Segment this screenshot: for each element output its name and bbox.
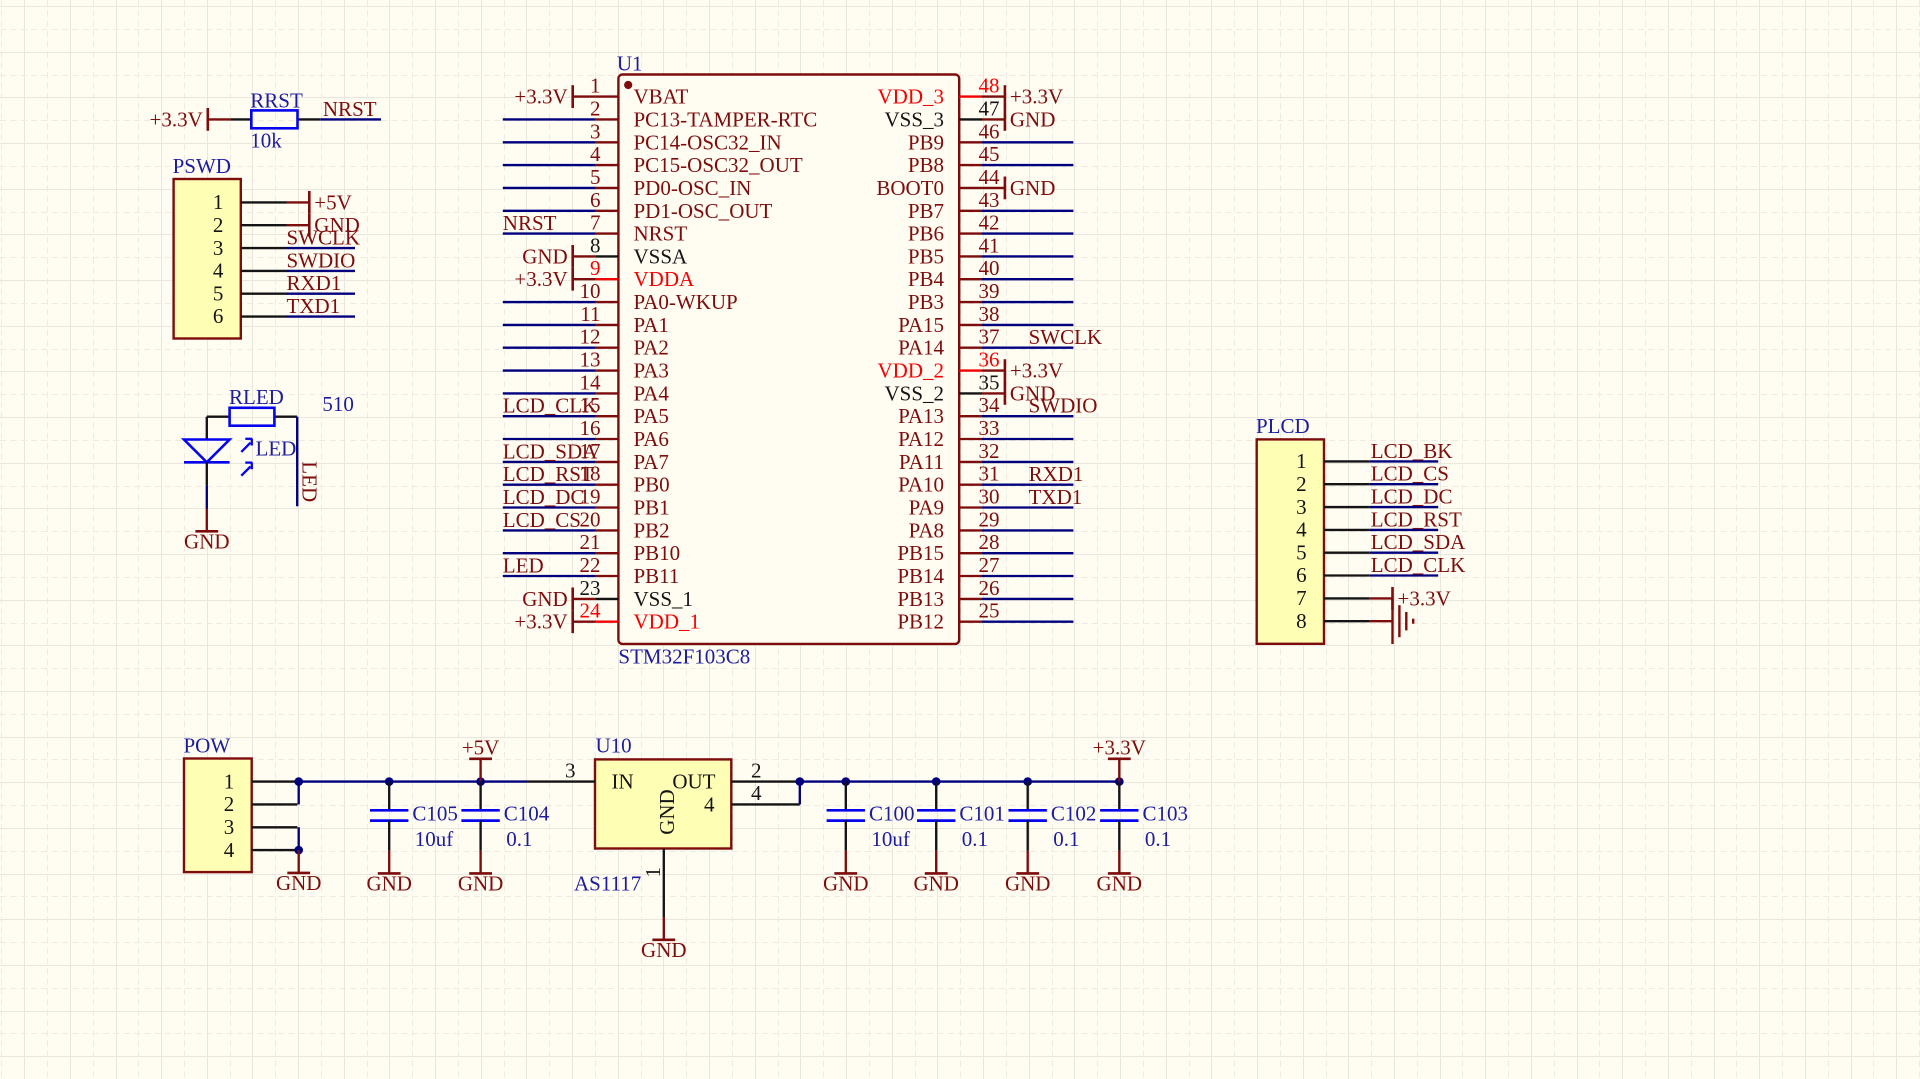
POW pin 4 (224, 838, 298, 862)
U10 pin 4 (704, 781, 800, 816)
svg-text:SWDIO: SWDIO (287, 248, 356, 272)
svg-text:PA2: PA2 (634, 336, 669, 360)
svg-text:+3.3V: +3.3V (1010, 359, 1063, 383)
svg-text:VSS_1: VSS_1 (634, 587, 694, 611)
svg-text:39: 39 (979, 279, 1000, 303)
U1 pin 12 (PA2) (580, 325, 669, 360)
svg-text:+3.3V: +3.3V (514, 85, 567, 109)
wire (799, 782, 801, 805)
junction (796, 777, 805, 786)
svg-text:28: 28 (979, 530, 1000, 554)
wire (503, 392, 596, 394)
capacitor C105 (370, 782, 408, 851)
svg-text:C105: C105 (412, 801, 458, 825)
svg-text:10uf: 10uf (871, 827, 910, 851)
svg-text:SWDIO: SWDIO (1029, 394, 1098, 418)
wire (503, 415, 596, 417)
svg-text:NRST: NRST (323, 97, 377, 121)
svg-text:PB9: PB9 (908, 130, 944, 154)
power +5V (PSWD pin 1) (287, 190, 352, 214)
svg-text:IN: IN (612, 770, 634, 794)
U1 pin 47 (VSS_3) (884, 96, 999, 131)
svg-text:PC13-TAMPER-RTC: PC13-TAMPER-RTC (634, 107, 818, 131)
svg-text:PB14: PB14 (897, 564, 944, 588)
svg-text:LED: LED (298, 461, 322, 502)
PLCD pin 5 (1296, 540, 1370, 564)
svg-text:BOOT0: BOOT0 (876, 176, 944, 200)
svg-text:29: 29 (979, 507, 1000, 531)
svg-text:STM32F103C8: STM32F103C8 (618, 644, 750, 668)
svg-text:38: 38 (979, 302, 1000, 326)
svg-text:C104: C104 (504, 801, 550, 825)
svg-text:35: 35 (979, 370, 1000, 394)
svg-text:LCD_BK: LCD_BK (1371, 439, 1453, 463)
svg-text:PA12: PA12 (898, 427, 944, 451)
U1 pin 27 (PB14) (897, 553, 999, 588)
svg-text:VSSA: VSSA (634, 244, 689, 268)
wire (982, 552, 1073, 554)
U1 pin 48 (VDD_3) (878, 74, 1000, 109)
svg-text:LCD_SDA: LCD_SDA (503, 439, 598, 463)
svg-text:42: 42 (979, 211, 1000, 235)
U1 pin 7 (NRST) (590, 211, 687, 246)
svg-text:LCD_DC: LCD_DC (1371, 485, 1453, 509)
svg-text:GND: GND (276, 871, 322, 895)
power +3.3V (RRST) (150, 107, 231, 131)
svg-text:+3.3V: +3.3V (1398, 586, 1451, 610)
U1 pin 22 (PB11) (580, 553, 680, 588)
junction (1115, 777, 1124, 786)
svg-text:GND: GND (913, 872, 959, 896)
svg-text:4: 4 (704, 792, 715, 816)
wire (982, 141, 1073, 143)
svg-text:PA10: PA10 (898, 473, 944, 497)
svg-text:C102: C102 (1051, 801, 1097, 825)
wire (503, 210, 596, 212)
resistor RLED (207, 408, 297, 426)
svg-text:C101: C101 (959, 801, 1005, 825)
svg-text:3: 3 (1296, 495, 1307, 519)
svg-text:10: 10 (580, 279, 601, 303)
svg-text:U1: U1 (617, 51, 643, 75)
LED D1 (184, 417, 252, 485)
svg-text:3: 3 (213, 236, 224, 260)
svg-text:PB13: PB13 (897, 587, 944, 611)
svg-text:SWCLK: SWCLK (287, 226, 361, 250)
svg-text:2: 2 (751, 758, 762, 782)
capacitor C102 (1009, 782, 1047, 851)
svg-text:TXD1: TXD1 (287, 294, 341, 318)
U1 pin 5 (PD0-OSC_IN) (590, 165, 751, 200)
resistor RRST (231, 110, 321, 128)
svg-text:9: 9 (590, 256, 601, 280)
PSWD pin 3 (213, 236, 287, 260)
svg-text:GND: GND (1010, 107, 1056, 131)
svg-text:0.1: 0.1 (1145, 827, 1171, 851)
svg-text:PB2: PB2 (634, 518, 670, 542)
wire NRST (320, 118, 381, 120)
wire (1370, 506, 1439, 508)
svg-text:PA13: PA13 (898, 404, 944, 428)
svg-text:GND: GND (823, 872, 869, 896)
svg-text:PA9: PA9 (909, 496, 944, 520)
svg-text:PB3: PB3 (908, 290, 944, 314)
power +3.3V (U1 pin 24) (514, 610, 595, 634)
wire (298, 782, 300, 805)
svg-text:PB5: PB5 (908, 244, 944, 268)
svg-text:+3.3V: +3.3V (514, 267, 567, 291)
wire (503, 506, 596, 508)
wire (503, 141, 596, 143)
U1 pin 11 (PA1) (580, 302, 669, 337)
svg-text:POW: POW (184, 733, 231, 757)
capacitor C103 (1100, 782, 1138, 851)
wire (982, 232, 1073, 234)
svg-text:PB6: PB6 (908, 222, 944, 246)
svg-text:RXD1: RXD1 (287, 271, 342, 295)
wire (503, 552, 596, 554)
U1 pin 30 (PA9) (909, 485, 1000, 520)
U1 pin 36 (VDD_2) (878, 348, 1000, 383)
U1 pin 38 (PA15) (898, 302, 999, 337)
svg-text:LCD_RST: LCD_RST (1371, 507, 1462, 531)
svg-text:GND: GND (184, 530, 230, 554)
wire (982, 255, 1073, 257)
junction (476, 777, 485, 786)
PSWD pin 1 (213, 190, 287, 214)
PLCD pin 1 (1296, 449, 1370, 473)
power +3.3V (U1 pin 36) (982, 359, 1063, 383)
svg-text:1: 1 (1296, 449, 1307, 473)
U1 pin 41 (PB5) (908, 233, 1000, 268)
svg-text:41: 41 (979, 233, 1000, 257)
svg-text:PB0: PB0 (634, 473, 670, 497)
svg-text:8: 8 (1296, 609, 1307, 633)
wire (982, 484, 1073, 486)
ground GND (U10) (641, 917, 687, 962)
wire (503, 164, 596, 166)
svg-text:25: 25 (979, 599, 1000, 623)
svg-text:LCD_DC: LCD_DC (503, 485, 585, 509)
wire (503, 575, 596, 577)
connector PLCD body (1257, 439, 1324, 643)
wire (503, 118, 596, 120)
svg-text:46: 46 (979, 119, 1000, 143)
svg-text:0.1: 0.1 (1053, 827, 1079, 851)
svg-text:12: 12 (580, 325, 601, 349)
U1 pin 3 (PC14-OSC32_IN) (590, 119, 782, 154)
junction (932, 777, 941, 786)
PLCD pin 2 (1296, 472, 1370, 496)
svg-text:PA3: PA3 (634, 359, 669, 383)
svg-text:4: 4 (590, 142, 601, 166)
wire (982, 278, 1073, 280)
wire (982, 210, 1073, 212)
power +3.3V (PLCD pin 7) (1370, 586, 1451, 610)
svg-text:GND: GND (458, 872, 504, 896)
svg-text:PB1: PB1 (634, 496, 670, 520)
U1 pin 10 (PA0-WKUP) (580, 279, 738, 314)
U1 pin 25 (PB12) (897, 599, 999, 634)
PSWD pin 2 (213, 213, 287, 237)
svg-text:1: 1 (213, 190, 224, 214)
U1 pin 37 (PA14) (898, 325, 999, 360)
svg-text:LED: LED (503, 553, 544, 577)
svg-text:22: 22 (580, 553, 601, 577)
wire (503, 232, 596, 234)
svg-text:PD1-OSC_OUT: PD1-OSC_OUT (634, 199, 773, 223)
svg-text:GND: GND (366, 872, 412, 896)
ground GND (C101) (913, 851, 959, 896)
svg-text:16: 16 (580, 416, 601, 440)
ground GND (LED) (184, 509, 230, 554)
capacitor C100 (827, 782, 865, 851)
U1 pin 16 (PA6) (580, 416, 669, 451)
power +3.3V (U1 pin 1) (514, 85, 595, 109)
svg-text:3: 3 (224, 815, 235, 839)
wire (503, 529, 596, 531)
svg-text:5: 5 (213, 281, 224, 305)
U1 pin 24 (VDD_1) (580, 599, 701, 634)
U1 pin 21 (PB10) (580, 530, 681, 565)
svg-text:10k: 10k (250, 129, 282, 153)
op-amp U1 body (STM32F103C8) (618, 75, 959, 644)
U1 pin 8 (VSSA) (590, 233, 688, 268)
U1 pin 45 (PB8) (908, 142, 1000, 177)
U1 pin 31 (PA10) (898, 462, 999, 497)
U1 pin 6 (PD1-OSC_OUT) (590, 188, 773, 223)
svg-text:PC14-OSC32_IN: PC14-OSC32_IN (634, 130, 782, 154)
wire (982, 164, 1073, 166)
svg-text:PA11: PA11 (899, 450, 944, 474)
svg-text:+5V: +5V (462, 735, 500, 759)
wire (1370, 574, 1439, 576)
svg-text:7: 7 (590, 211, 601, 235)
svg-text:LCD_RST: LCD_RST (503, 462, 594, 486)
svg-text:PSWD: PSWD (173, 154, 231, 178)
junction (294, 846, 303, 855)
svg-text:10uf: 10uf (415, 827, 454, 851)
wire +3.3V rail (800, 780, 1120, 782)
wire (982, 621, 1073, 623)
svg-text:RLED: RLED (229, 385, 284, 409)
svg-text:LCD_CLK: LCD_CLK (1371, 553, 1466, 577)
U1 pin 32 (PA11) (899, 439, 1000, 474)
svg-text:21: 21 (580, 530, 601, 554)
svg-text:34: 34 (979, 393, 1001, 417)
svg-text:VDD_3: VDD_3 (878, 85, 945, 109)
U10 pin 3 (IN) (527, 758, 634, 793)
capacitor C104 (461, 782, 499, 851)
svg-text:VBAT: VBAT (634, 85, 689, 109)
connector PSWD body (174, 179, 241, 339)
wire (287, 247, 356, 249)
svg-text:C100: C100 (869, 801, 915, 825)
PLCD pin 4 (1296, 518, 1370, 542)
wire (503, 187, 596, 189)
ground GND (U1 pin 35) (982, 381, 1055, 405)
junction (294, 777, 303, 786)
svg-text:PC15-OSC32_OUT: PC15-OSC32_OUT (634, 153, 803, 177)
svg-text:6: 6 (1296, 563, 1307, 587)
svg-text:5: 5 (1296, 540, 1307, 564)
U1 pin 17 (PA7) (580, 439, 669, 474)
ground GND (C102) (1005, 851, 1051, 896)
svg-text:GND: GND (655, 789, 679, 835)
wire (503, 484, 596, 486)
power +3.3V (U1 pin 9) (514, 267, 595, 291)
svg-text:U10: U10 (596, 733, 632, 757)
ground GND (PSWD pin 2) (287, 213, 360, 237)
svg-text:PA0-WKUP: PA0-WKUP (634, 290, 738, 314)
U1 pin 13 (PA3) (580, 348, 669, 383)
svg-text:2: 2 (213, 213, 224, 237)
svg-text:3: 3 (590, 119, 601, 143)
svg-text:45: 45 (979, 142, 1000, 166)
POW pin 3 (224, 815, 298, 839)
U1 pin 29 (PA8) (909, 507, 1000, 542)
wire (206, 485, 208, 508)
svg-text:PA14: PA14 (898, 336, 944, 360)
PSWD pin 6 (213, 304, 287, 328)
U10 pin 1 (GND) (641, 789, 679, 917)
wire (503, 438, 596, 440)
svg-text:LCD_CLK: LCD_CLK (503, 394, 598, 418)
U1 pin 40 (PB4) (908, 256, 1000, 291)
ground GND (U1 pin 8) (522, 244, 595, 268)
svg-text:PA8: PA8 (909, 518, 944, 542)
svg-text:40: 40 (979, 256, 1000, 280)
svg-text:4: 4 (1296, 518, 1307, 542)
svg-text:27: 27 (979, 553, 1000, 577)
svg-text:30: 30 (979, 485, 1000, 509)
wire (982, 301, 1073, 303)
U1 pin 19 (PB1) (580, 485, 670, 520)
svg-text:PB7: PB7 (908, 199, 944, 223)
svg-text:510: 510 (322, 392, 354, 416)
svg-text:C103: C103 (1143, 801, 1189, 825)
svg-text:6: 6 (213, 304, 224, 328)
svg-text:PA4: PA4 (634, 381, 670, 405)
U1 pin 33 (PA12) (898, 416, 999, 451)
svg-text:GND: GND (1097, 872, 1143, 896)
svg-text:2: 2 (224, 792, 235, 816)
svg-text:4: 4 (751, 781, 762, 805)
U1 pin 43 (PB7) (908, 188, 1000, 223)
svg-text:AS1117: AS1117 (574, 871, 641, 895)
svg-text:1: 1 (590, 74, 601, 98)
svg-text:2: 2 (590, 96, 601, 120)
wire (503, 301, 596, 303)
power +3.3V (rail) (1093, 735, 1146, 781)
svg-text:LED: LED (256, 437, 297, 461)
U1 pin 46 (PB9) (908, 119, 1000, 154)
U1 pin 15 (PA5) (580, 393, 669, 428)
PSWD pin 4 (213, 259, 287, 283)
wire (982, 575, 1073, 577)
U1 origin marker (624, 81, 632, 89)
svg-text:NRST: NRST (503, 211, 557, 235)
wire (1370, 552, 1439, 554)
ground GND (U1 pin 44) (982, 176, 1055, 200)
svg-text:+5V: +5V (314, 190, 352, 214)
svg-text:1: 1 (641, 867, 665, 878)
svg-text:48: 48 (979, 74, 1000, 98)
svg-text:OUT: OUT (672, 770, 715, 794)
wire (982, 415, 1073, 417)
junction (1023, 777, 1032, 786)
svg-text:26: 26 (979, 576, 1000, 600)
wire (982, 347, 1073, 349)
svg-text:+3.3V: +3.3V (1093, 735, 1146, 759)
svg-text:11: 11 (580, 302, 600, 326)
svg-text:2: 2 (1296, 472, 1307, 496)
wire (982, 324, 1073, 326)
capacitor C101 (917, 782, 955, 851)
svg-text:PA6: PA6 (634, 427, 669, 451)
POW pin 2 (224, 792, 298, 816)
junction (385, 777, 394, 786)
svg-text:PB12: PB12 (897, 610, 944, 634)
wire (982, 438, 1073, 440)
junction (842, 777, 851, 786)
wire (1370, 529, 1439, 531)
svg-text:VDD_1: VDD_1 (634, 610, 701, 634)
U1 pin 18 (PB0) (580, 462, 670, 497)
wire (1370, 483, 1439, 485)
svg-text:GND: GND (641, 938, 687, 962)
svg-text:TXD1: TXD1 (1029, 485, 1083, 509)
svg-text:1: 1 (224, 769, 235, 793)
PLCD pin 8 (1296, 609, 1370, 633)
wire (287, 270, 356, 272)
U10 pin 2 (OUT) (672, 758, 799, 793)
wire (982, 529, 1073, 531)
svg-text:31: 31 (979, 462, 1000, 486)
svg-text:4: 4 (213, 259, 224, 283)
ground GND (POW) (276, 850, 322, 895)
svg-text:VSS_3: VSS_3 (884, 107, 944, 131)
svg-text:VSS_2: VSS_2 (884, 381, 944, 405)
PLCD pin 6 (1296, 563, 1370, 587)
U1 pin 14 (PA4) (580, 370, 670, 405)
svg-text:43: 43 (979, 188, 1000, 212)
svg-text:LCD_CS: LCD_CS (1371, 462, 1449, 486)
svg-text:47: 47 (979, 96, 1000, 120)
ground GND (U1 pin 23) (522, 587, 595, 611)
svg-text:+3.3V: +3.3V (150, 107, 203, 131)
svg-text:44: 44 (979, 165, 1001, 189)
svg-text:14: 14 (580, 370, 602, 394)
svg-text:4: 4 (224, 838, 235, 862)
svg-text:PA15: PA15 (898, 313, 944, 337)
svg-text:VDD_2: VDD_2 (878, 359, 945, 383)
wire (1370, 460, 1439, 462)
svg-text:+3.3V: +3.3V (514, 610, 567, 634)
svg-text:32: 32 (979, 439, 1000, 463)
wire +5V rail (299, 780, 527, 782)
U1 pin 35 (VSS_2) (884, 370, 999, 405)
svg-text:PD0-OSC_IN: PD0-OSC_IN (634, 176, 752, 200)
svg-text:7: 7 (1296, 586, 1307, 610)
svg-text:PB8: PB8 (908, 153, 944, 177)
PLCD pin 7 (1296, 586, 1370, 610)
U1 pin 2 (PC13-TAMPER-RTC) (590, 96, 817, 131)
wire (503, 461, 596, 463)
svg-text:0.1: 0.1 (506, 827, 532, 851)
svg-text:8: 8 (590, 233, 601, 257)
U1 pin 23 (VSS_1) (580, 576, 694, 611)
